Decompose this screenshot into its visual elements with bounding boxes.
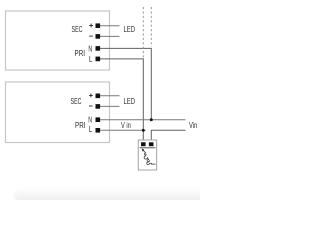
dimmer squiggle symbol xyxy=(143,150,155,164)
bottom panel edge (faint next card) xyxy=(14,187,206,203)
svg-text:N: N xyxy=(88,115,92,124)
LED driver box 1 (outline) xyxy=(6,11,110,70)
svg-text:L: L xyxy=(89,55,93,64)
LED driver box 2 (outline) xyxy=(6,82,110,143)
pin label - (driver 2) xyxy=(89,105,93,107)
dashed continuation line N xyxy=(150,7,152,47)
terminal + (driver 1) xyxy=(96,23,101,28)
pin label + (driver 1) xyxy=(89,24,93,28)
junction dot L xyxy=(142,129,145,132)
wire L bus (right segment from dimmer) xyxy=(151,130,185,142)
terminal - (driver 1) xyxy=(96,34,101,39)
terminal + (driver 2) xyxy=(96,94,101,99)
dimmer separator line xyxy=(140,147,156,149)
svg-text:N: N xyxy=(88,44,92,53)
svg-text:Vin: Vin xyxy=(189,121,197,130)
wire N (driver 1 to bus) xyxy=(100,48,151,119)
svg-text:PRI: PRI xyxy=(75,49,86,58)
svg-text:LED: LED xyxy=(124,25,136,34)
wire L (driver 1 to bus) xyxy=(100,59,143,142)
terminal N (driver 2) xyxy=(96,117,101,122)
wire N bus xyxy=(100,119,186,121)
dimmer arrow head xyxy=(142,149,145,152)
terminal N (driver 1) xyxy=(96,46,101,51)
dimmer terminal left xyxy=(141,142,146,146)
svg-text:LED: LED xyxy=(124,97,136,106)
dimmer box outline xyxy=(138,140,156,170)
wire - stub (driver 1) xyxy=(100,35,120,37)
terminal - (driver 2) xyxy=(96,104,101,109)
terminal L (driver 1) xyxy=(96,57,101,62)
wire + stub (driver 1) xyxy=(100,25,120,27)
svg-text:V in: V in xyxy=(121,121,131,130)
pin label + (driver 2) xyxy=(89,94,93,98)
svg-text:SEC: SEC xyxy=(72,25,83,34)
svg-text:PRI: PRI xyxy=(75,121,86,130)
wire + stub (driver 2) xyxy=(100,95,120,97)
wire L bus (left segment) xyxy=(100,129,146,131)
wire - stub (driver 2) xyxy=(100,105,120,107)
pin label - (driver 1) xyxy=(89,35,93,37)
svg-text:SEC: SEC xyxy=(71,97,82,106)
terminal L (driver 2) xyxy=(96,128,101,133)
junction dot N xyxy=(150,118,153,121)
dimmer terminal right xyxy=(149,142,154,146)
dashed continuation line L xyxy=(142,7,144,58)
svg-text:L: L xyxy=(89,125,93,134)
